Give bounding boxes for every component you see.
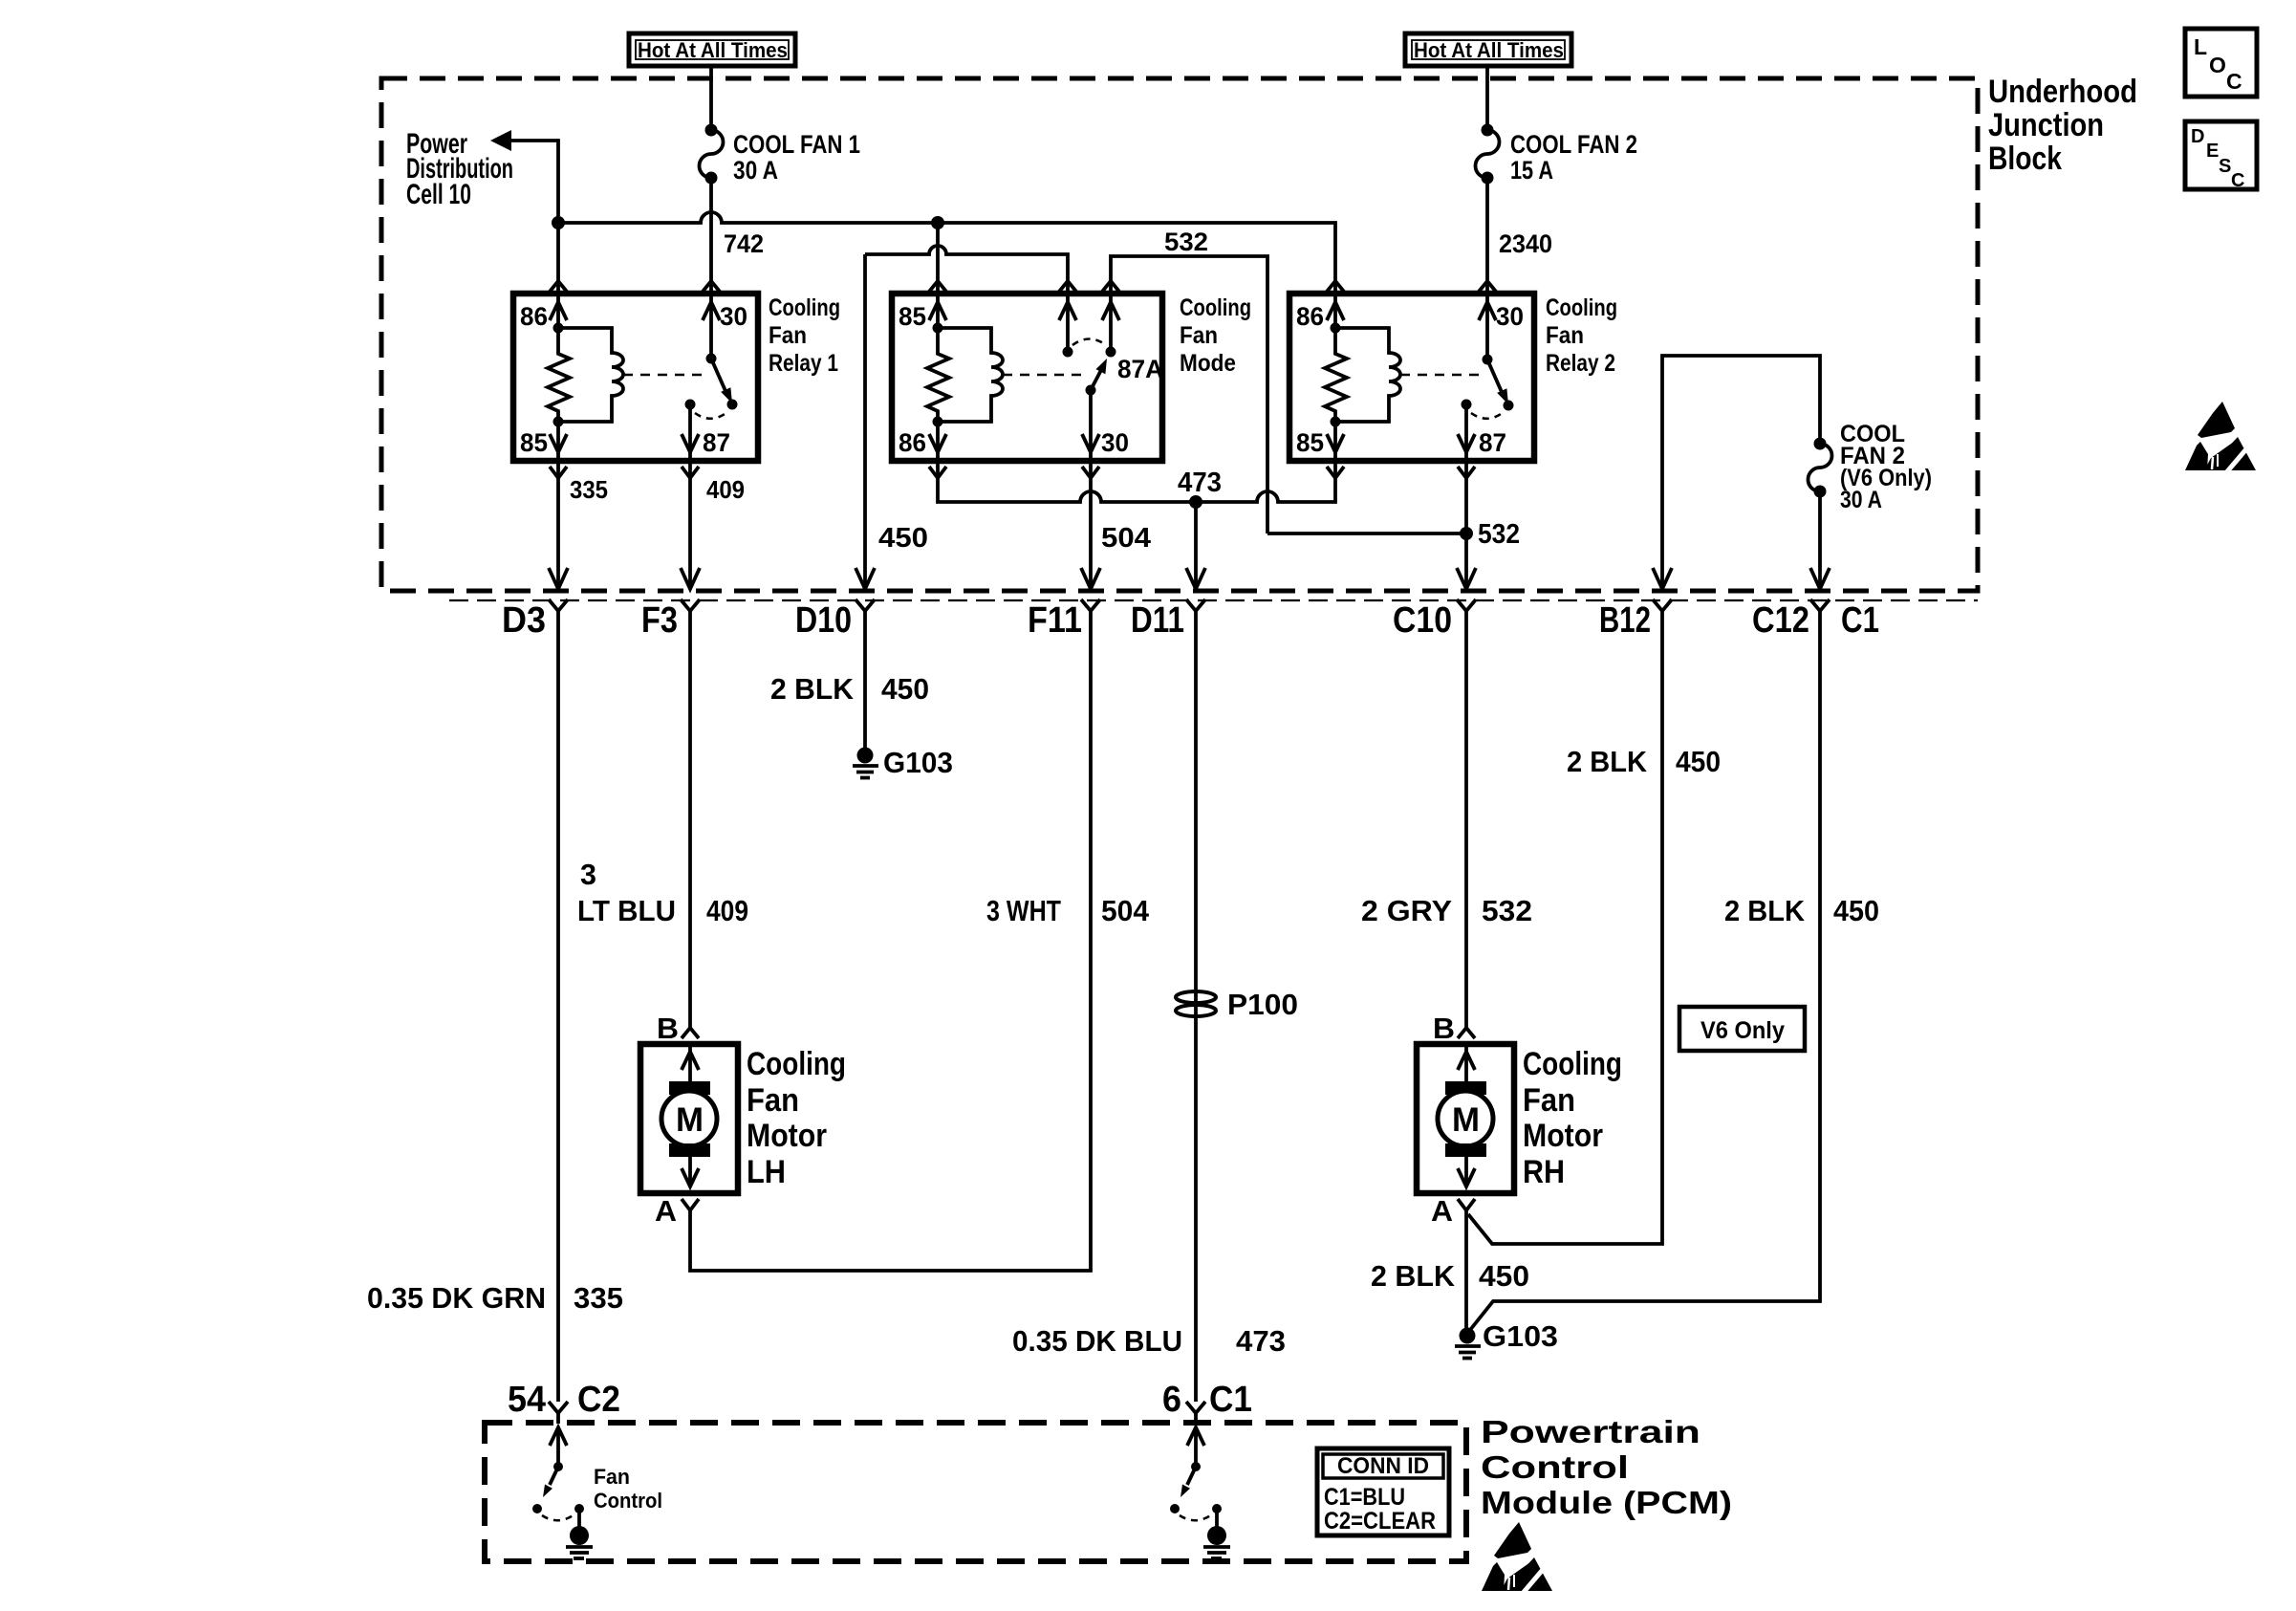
svg-text:2340: 2340 (1499, 229, 1552, 258)
svg-text:0.35 DK GRN: 0.35 DK GRN (367, 1281, 546, 1315)
wire 450 color label 2 BLK at RH ground (1371, 1259, 1529, 1293)
relay 1 coil winding (558, 328, 623, 422)
mode relay pin 30 connector Y below box (1082, 467, 1099, 478)
svg-text:D11: D11 (1131, 600, 1184, 641)
fuse COOL FAN 2 (V6 Only) 30 A (1808, 421, 1932, 513)
PCM pin 6 connector (1162, 1380, 1252, 1424)
svg-text:L: L (2194, 34, 2207, 59)
svg-text:Cooling: Cooling (747, 1046, 846, 1082)
svg-text:Motor: Motor (747, 1118, 827, 1154)
Fan Control label (594, 1465, 662, 1513)
svg-text:450: 450 (878, 523, 928, 554)
wire 532 C10 to RH motor pin B (1464, 611, 1468, 1028)
Hot At All Times box 2 (1405, 33, 1571, 66)
PCM fan control switch 1 (532, 1427, 593, 1558)
Hot At All Times box 1 (629, 33, 795, 66)
mode relay pin 86 exit arrow (929, 422, 946, 461)
Powertrain Control Module dashed box (485, 1423, 1466, 1561)
wire bus down to relay 1 pin 86 (556, 223, 560, 294)
svg-text:C1=BLU: C1=BLU (1324, 1484, 1405, 1511)
wire 473 net: mode relay pin 86 and relay 2 pin 85 to D11 (938, 461, 1335, 502)
svg-text:504: 504 (1101, 894, 1150, 927)
svg-text:G103: G103 (1483, 1319, 1558, 1353)
relay K2 Cooling Fan Relay 2 box (1289, 294, 1534, 461)
svg-text:P100: P100 (1227, 988, 1298, 1021)
wire from Hot box 2 to fuse 2 (1485, 66, 1489, 130)
UJB exit arrow F11 (1081, 568, 1100, 589)
svg-text:86: 86 (520, 302, 548, 331)
RH motor box (1417, 1044, 1514, 1193)
svg-text:G103: G103 (883, 746, 953, 779)
svg-text:473: 473 (1236, 1324, 1286, 1358)
relay 2 pin 87 connector Y below box (1458, 467, 1475, 478)
wire 450 B12 to RH motor pin A (1468, 611, 1662, 1244)
svg-text:532: 532 (1164, 228, 1208, 256)
svg-text:D3: D3 (502, 600, 546, 641)
wire 450 D10 to ground G103 (863, 611, 867, 749)
mode relay pin 87A contact (1106, 347, 1116, 358)
svg-text:C2: C2 (577, 1380, 620, 1420)
svg-text:Control: Control (1481, 1449, 1629, 1485)
svg-text:Control: Control (594, 1489, 662, 1513)
svg-text:LT BLU: LT BLU (577, 894, 676, 927)
Underhood Junction Block label (1988, 74, 2137, 177)
wire 532 color label 2 GRY (1361, 894, 1532, 927)
connector pin F11 (1028, 599, 1100, 641)
LH motor pin B connector caret (682, 1028, 699, 1038)
Powertrain Control Module label (1481, 1414, 1732, 1520)
svg-text:C1: C1 (1841, 600, 1879, 641)
svg-text:85: 85 (520, 428, 548, 457)
svg-text:473: 473 (1178, 468, 1222, 498)
wire 409 relay1 pin87 to F3 (688, 461, 692, 589)
svg-text:Fan: Fan (1546, 322, 1584, 349)
CONN ID table (1317, 1448, 1449, 1535)
UJB exit arrow B12 (1653, 568, 1672, 589)
UJB exit arrow D11 (1186, 568, 1205, 589)
svg-text:30 A: 30 A (733, 156, 778, 185)
LH motor box (640, 1044, 738, 1193)
relay 2 switch dashed throw arc (1471, 412, 1504, 419)
connector caret above relay 1 pin 30 (703, 281, 720, 292)
svg-text:Mode: Mode (1180, 350, 1236, 377)
wire 409 F3 to LH motor pin B (688, 611, 692, 1028)
svg-text:532: 532 (1482, 894, 1532, 927)
mode relay switch arm (1091, 359, 1107, 390)
relay 1 switch arm end contact (727, 400, 738, 410)
connector pin C12 (1752, 599, 1830, 641)
svg-text:C10: C10 (1393, 600, 1452, 641)
svg-text:30: 30 (1101, 428, 1129, 457)
svg-text:B: B (657, 1012, 679, 1045)
svg-text:C: C (2226, 69, 2242, 94)
relay 1 name label (769, 294, 840, 377)
wire V6 fuse to C12 (1818, 491, 1822, 589)
svg-text:409: 409 (706, 475, 745, 504)
svg-text:Block: Block (1988, 141, 2062, 177)
V6 Only note box (1679, 1007, 1805, 1051)
fuse COOL FAN 2 15 A (1476, 124, 1638, 185)
svg-text:742: 742 (724, 229, 764, 258)
relay 2 pin 87 exit arrow (1458, 404, 1475, 461)
LH motor pin A internal arrow (688, 1157, 692, 1186)
relay K1 Cooling Fan Relay 1 box (513, 294, 758, 461)
UJB connector row thin dashed line (449, 599, 1978, 601)
ground G103 right (1455, 1319, 1558, 1359)
mode relay switch pivot (1086, 385, 1096, 396)
relay 1 coil resistor (548, 328, 570, 422)
connector pin C10 (1393, 599, 1476, 641)
relay 2 coil-to-switch dashed link (1400, 374, 1482, 377)
svg-text:86: 86 (899, 428, 926, 457)
wire 532 lower run to relay 2 pin 87 (1267, 532, 1466, 535)
wire 473 D11 to PCM pin 6 (1194, 611, 1198, 1402)
svg-text:335: 335 (570, 475, 608, 504)
LH motor pin A connector Y (682, 1199, 699, 1210)
svg-text:Cell 10: Cell 10 (406, 179, 471, 210)
relay 1 coil top junction (553, 323, 564, 334)
svg-text:3 WHT: 3 WHT (986, 894, 1061, 927)
svg-text:E: E (2206, 141, 2219, 162)
svg-text:335: 335 (574, 1281, 623, 1315)
Cooling Fan Motor RH (1417, 1012, 1622, 1228)
svg-text:2 BLK: 2 BLK (1371, 1259, 1456, 1293)
connector pin D11 (1131, 599, 1205, 641)
connector pin B12 (1599, 599, 1672, 641)
connector caret above relay 2 pin 30 (1479, 281, 1496, 292)
relay 1 switch pivot (706, 354, 717, 364)
connector pin D10 (795, 599, 875, 641)
wire 450 C12 to ground G103 (1470, 611, 1820, 1330)
wire 473 junction at D11 (1189, 495, 1202, 509)
relay 1 pin 85 exit arrow (550, 422, 567, 461)
relay 1 pin 30 entry arrow (703, 294, 720, 359)
svg-text:D10: D10 (795, 600, 852, 641)
wire 450 net: relay pins to ground feed (D10 to mode relay pin 87) (865, 246, 1068, 294)
svg-text:Fan: Fan (1180, 322, 1218, 349)
svg-text:Hot At All Times: Hot At All Times (638, 38, 788, 62)
svg-text:C12: C12 (1752, 600, 1809, 641)
svg-text:C2=CLEAR: C2=CLEAR (1324, 1508, 1436, 1535)
mode relay pin labels (899, 302, 1163, 457)
junction node on bus at D3 column (552, 216, 565, 229)
svg-text:Fan: Fan (747, 1082, 799, 1119)
mode relay coil bottom junction (933, 417, 943, 427)
svg-text:Relay 2: Relay 2 (1546, 350, 1615, 377)
svg-text:B: B (1433, 1012, 1455, 1045)
UJB exit arrow D10 (856, 568, 875, 589)
svg-text:87: 87 (1479, 428, 1506, 457)
relay 2 switch arm end contact (1504, 401, 1514, 411)
mode relay dashed throw arc (1072, 339, 1106, 346)
svg-text:Powertrain: Powertrain (1481, 1414, 1700, 1449)
svg-text:Cooling: Cooling (769, 294, 840, 321)
RH motor pin B connector caret (1458, 1028, 1475, 1038)
wire from Hot box 1 to fuse 1 (709, 66, 713, 130)
svg-text:Relay 1: Relay 1 (769, 350, 838, 377)
connector caret above relay 1 pin 86 (550, 281, 567, 292)
PCM pin 54 connector (508, 1380, 620, 1424)
svg-text:30 A: 30 A (1840, 487, 1882, 513)
wire 532 relay2 pin87 to C10 (1464, 461, 1468, 589)
Cooling Fan Motor LH (640, 1012, 846, 1228)
svg-text:LH: LH (747, 1154, 786, 1190)
PCM fan control switch 2 (1170, 1427, 1230, 1558)
svg-text:2 BLK: 2 BLK (1724, 894, 1806, 927)
relay 2 coil resistor (1325, 328, 1347, 422)
svg-text:409: 409 (706, 894, 748, 927)
LH motor pin B internal arrow (688, 1044, 692, 1081)
ground G103 left (853, 746, 953, 779)
svg-text:Motor: Motor (1523, 1118, 1603, 1154)
wire 450 D10 drop (863, 254, 867, 589)
wire 335 relay1 pin85 to D3 (556, 461, 560, 589)
connector pin D3 (502, 599, 568, 641)
mode relay coil resistor (927, 328, 949, 422)
mode relay pin 87 contact (1063, 347, 1073, 358)
svg-text:2 GRY: 2 GRY (1361, 894, 1452, 927)
wire 504 color label 3 WHT (986, 894, 1150, 927)
relay 2 pin 85 connector Y below box (1327, 467, 1344, 478)
svg-text:Cooling: Cooling (1180, 294, 1251, 321)
connector caret above mode relay pin 87A (1102, 281, 1119, 292)
mode relay coil winding (938, 328, 1003, 422)
svg-text:6: 6 (1162, 1380, 1181, 1420)
relay 2 coil bottom junction (1331, 417, 1341, 427)
wire 450 color label 2 BLK (770, 672, 929, 706)
mode relay name label (1180, 294, 1251, 377)
relay 2 name label (1546, 294, 1617, 377)
svg-text:Junction: Junction (1988, 107, 2104, 143)
svg-text:Underhood: Underhood (1988, 74, 2137, 110)
svg-text:86: 86 (1296, 302, 1324, 331)
svg-text:F11: F11 (1028, 600, 1082, 641)
svg-text:450: 450 (881, 672, 929, 706)
connector pin F3 (641, 599, 700, 641)
relay 2 switch pivot (1483, 355, 1493, 365)
svg-text:2 BLK: 2 BLK (1567, 745, 1648, 778)
svg-text:F3: F3 (641, 600, 678, 641)
RH motor brush bottom (1445, 1143, 1486, 1157)
svg-text:V6 Only: V6 Only (1700, 1017, 1785, 1044)
svg-text:85: 85 (1296, 428, 1324, 457)
mode relay coil-to-switch dashed link (1003, 374, 1088, 377)
fuse COOL FAN 1 30 A (700, 124, 861, 185)
relay 2 pin 30 entry arrow (1479, 294, 1496, 359)
wire 450 C12 color label 2 BLK (1724, 894, 1879, 927)
svg-text:RH: RH (1523, 1154, 1565, 1190)
relay 1 pin 86 entry arrow (550, 294, 567, 328)
wire 504 F11 to LH motor pin A (690, 611, 1091, 1271)
svg-text:85: 85 (899, 302, 926, 331)
relay 1 switch contact 87 (685, 400, 696, 410)
mode relay pin 87 stub arrow (1059, 294, 1076, 352)
svg-text:3: 3 (580, 858, 596, 891)
svg-text:Fan: Fan (1523, 1082, 1575, 1119)
svg-text:D: D (2191, 126, 2204, 147)
wire 335 D3 to PCM pin 54 (556, 611, 560, 1402)
svg-text:450: 450 (1676, 745, 1721, 778)
RH motor pin B internal arrow (1464, 1044, 1468, 1081)
LH motor armature M (661, 1091, 717, 1146)
in-line connector P100 (1176, 988, 1298, 1021)
svg-text:O: O (2209, 53, 2226, 77)
relay 2 coil winding (1335, 328, 1400, 422)
svg-text:30: 30 (720, 302, 747, 331)
mode relay pin 86 connector Y below box (929, 467, 946, 478)
svg-text:C: C (2231, 170, 2244, 191)
RH motor pin A connector Y (1458, 1199, 1475, 1210)
relay 1 coil bottom junction (553, 417, 564, 427)
wire 504 mode relay pin 30 to F11 (1089, 461, 1093, 589)
relay 2 switch arm (1487, 359, 1508, 404)
wire 532 junction at C10 (1460, 527, 1473, 540)
wire 473 color label 0.35 DK BLU (1012, 1324, 1286, 1358)
svg-text:M: M (676, 1101, 704, 1139)
svg-text:450: 450 (1479, 1259, 1529, 1293)
DESC reference box (2185, 121, 2257, 191)
svg-text:Module (PCM): Module (PCM) (1481, 1485, 1732, 1520)
LH motor brush bottom (669, 1143, 710, 1157)
svg-text:2 BLK: 2 BLK (770, 672, 855, 706)
svg-text:504: 504 (1101, 523, 1151, 554)
Power Distribution Cell 10 reference arrow (406, 128, 558, 223)
svg-text:Fan: Fan (594, 1465, 630, 1489)
svg-text:Cooling: Cooling (1546, 294, 1617, 321)
relay K3 Cooling Fan Mode box (892, 294, 1162, 461)
svg-text:87A: 87A (1117, 355, 1163, 383)
svg-text:COOL FAN 1: COOL FAN 1 (733, 130, 860, 159)
relay 1 switch dashed throw arc (695, 412, 727, 419)
svg-text:15 A: 15 A (1510, 156, 1553, 185)
wire B12 to V6 fuse bracket (1662, 356, 1820, 589)
UJB exit arrow D3 (549, 568, 568, 589)
RH motor armature M (1438, 1091, 1493, 1146)
svg-text:Hot At All Times: Hot At All Times (1414, 38, 1564, 62)
wire RH motor pin A down to ground G103 (1464, 1210, 1468, 1328)
LH motor brush top (669, 1081, 710, 1095)
wire 2340 fuse2 output down to relay 2 pin 30 (1485, 178, 1489, 294)
relay 1 coil-to-switch dashed link (623, 374, 704, 377)
svg-text:532: 532 (1478, 519, 1520, 550)
svg-text:B12: B12 (1599, 600, 1651, 641)
relay 2 switch contact 87 (1462, 400, 1472, 410)
svg-text:450: 450 (1833, 894, 1879, 927)
svg-text:S: S (2219, 156, 2231, 177)
Underhood Junction Block dashed box (381, 78, 1978, 591)
UJB exit arrow C12 (1810, 568, 1830, 589)
svg-text:Cooling: Cooling (1523, 1046, 1622, 1082)
svg-text:Fan: Fan (769, 322, 807, 349)
junction node on bus at mode relay pin 85 column (931, 216, 944, 229)
relay 1 switch arm (711, 359, 732, 403)
relay 2 coil top junction (1331, 323, 1341, 334)
wire 450 B12 color label 2 BLK (1567, 745, 1721, 778)
relay 2 pin labels (1296, 302, 1524, 457)
mode relay pin 87A stub arrow (1102, 294, 1119, 352)
relay 2 pin 86 entry arrow (1327, 294, 1344, 328)
svg-text:CONN ID: CONN ID (1337, 1453, 1429, 1479)
svg-text:COOL FAN 2: COOL FAN 2 (1510, 130, 1637, 159)
mode relay coil top junction (933, 323, 943, 334)
wire bus down to mode relay pin 85 (936, 223, 940, 294)
relay 1 pin labels (520, 302, 747, 457)
mode relay pin 85 entry arrow (929, 294, 946, 328)
ESD sensitive symbol right (2185, 402, 2256, 476)
svg-text:30: 30 (1496, 302, 1524, 331)
svg-text:0.35 DK BLU: 0.35 DK BLU (1012, 1324, 1182, 1358)
relay 1 pin 87 exit arrow (682, 404, 699, 461)
UJB exit arrow F3 (681, 568, 700, 589)
UJB exit arrow C10 (1457, 568, 1476, 589)
RH motor pin A internal arrow (1464, 1157, 1468, 1186)
connector caret above mode relay pin 85 (929, 281, 946, 292)
svg-text:C1: C1 (1209, 1380, 1252, 1420)
svg-text:M: M (1452, 1101, 1480, 1139)
wire 473 drop to D11 (1194, 502, 1198, 589)
relay 2 pin 85 exit arrow (1327, 422, 1344, 461)
power distribution bus wire (hot feed to relay coils) (558, 212, 1335, 294)
LOC reference box (2185, 29, 2257, 97)
ESD sensitive symbol at PCM (1482, 1522, 1552, 1597)
svg-text:A: A (1431, 1194, 1453, 1228)
connector caret above mode relay pin 87 (1059, 281, 1076, 292)
relay 1 pin 85 connector Y below box (550, 467, 567, 478)
wire 532 upper bracket: mode relay pin 87A to relay2 area (1111, 256, 1267, 533)
svg-text:87: 87 (703, 428, 730, 457)
wire 409 color label 3 LT BLU (577, 858, 748, 927)
wire 742 fuse1 output down to relay 1 pin 30 (709, 178, 713, 294)
svg-text:54: 54 (508, 1380, 546, 1420)
wire 335 color label 0.35 DK GRN (367, 1281, 623, 1315)
mode relay pin 30 exit arrow (1082, 390, 1099, 461)
svg-text:A: A (655, 1194, 677, 1228)
connector caret above relay 2 pin 86 (1327, 281, 1344, 292)
RH motor brush top (1445, 1081, 1486, 1095)
relay 1 pin 87 connector Y below box (682, 467, 699, 478)
